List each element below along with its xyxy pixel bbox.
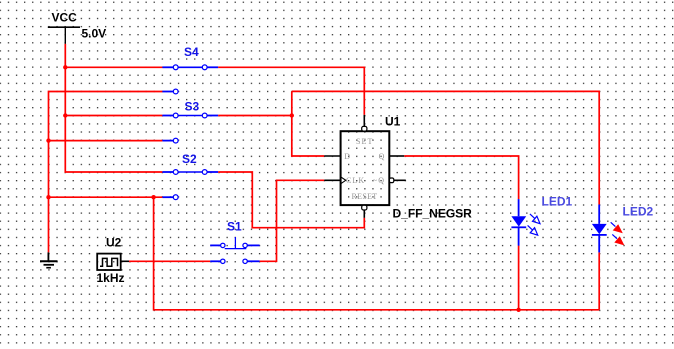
svg-text:LED1: LED1: [542, 195, 573, 209]
wire node to LED2: [292, 91, 599, 204]
wire S3 lower throw: [49, 140, 163, 142]
svg-text:LED2: LED2: [623, 205, 654, 219]
wire S1 to U1 CLK: [260, 180, 325, 261]
ground: [40, 252, 58, 267]
clock source U2: [97, 254, 129, 270]
switch S4: [162, 65, 218, 94]
svg-text:1kHz: 1kHz: [97, 271, 125, 285]
junction S3 common node: [290, 113, 294, 117]
svg-text:RESET: RESET: [352, 192, 378, 201]
LED LED1: [511, 199, 540, 246]
junction S2 bottom row: [151, 195, 155, 199]
U1 ~Q pin: [389, 178, 405, 183]
switch S3: [162, 113, 218, 143]
power VCC: [48, 27, 80, 44]
junction bus/LED1: [516, 308, 520, 312]
U1 SET pin: [362, 115, 367, 131]
U1 Q pin: [389, 155, 404, 157]
junction at VCC/S3: [63, 113, 67, 117]
junction ground bus/S3: [46, 138, 50, 142]
svg-text:Q: Q: [379, 152, 386, 161]
wire U2 to S1: [129, 260, 210, 262]
wire S2 bottom to LED return bus: [154, 197, 600, 310]
svg-text:D_FF_NEGSR: D_FF_NEGSR: [393, 207, 473, 221]
svg-text:~Q: ~Q: [373, 176, 385, 185]
svg-text:CLK: CLK: [346, 176, 365, 185]
svg-text:U2: U2: [106, 236, 122, 250]
wire S2 lower throw: [49, 196, 163, 198]
wire VCC vertical to S2: [65, 44, 162, 172]
svg-text:S2: S2: [182, 152, 197, 166]
svg-text:S1: S1: [227, 220, 242, 234]
wire VCC to S3 pole: [65, 115, 162, 117]
junction ground bus/S2: [46, 195, 50, 199]
switch S1 pushbutton: [210, 237, 259, 263]
flip-flop U1 box: [341, 131, 390, 205]
wire U1 Q to LED1: [404, 156, 518, 199]
wire S4 common to U1 SET: [218, 67, 364, 115]
U1 D pin: [324, 155, 340, 157]
svg-text:VCC: VCC: [52, 11, 78, 25]
wire VCC to S4 pole: [65, 66, 162, 68]
wire node to U1 D: [292, 91, 325, 156]
wire S2 common to U1 RESET: [218, 172, 364, 228]
svg-text:S3: S3: [185, 100, 200, 114]
U1 RESET pin: [362, 205, 367, 218]
switch S2: [162, 170, 218, 200]
svg-text:S4: S4: [184, 45, 199, 59]
wire LED1 to bus: [518, 246, 520, 310]
wire LED2 to bus: [598, 252, 600, 309]
junction at VCC/S4: [63, 65, 67, 69]
wire S4 lower throw to ground bus: [49, 92, 163, 253]
svg-text:D: D: [344, 152, 351, 161]
svg-text:U1: U1: [385, 115, 401, 129]
U1 CLK pin: [324, 177, 346, 184]
wire S3 common: [218, 115, 292, 117]
svg-text:SET: SET: [356, 137, 374, 146]
LED LED2: [592, 205, 625, 253]
svg-text:5.0V: 5.0V: [82, 27, 107, 41]
